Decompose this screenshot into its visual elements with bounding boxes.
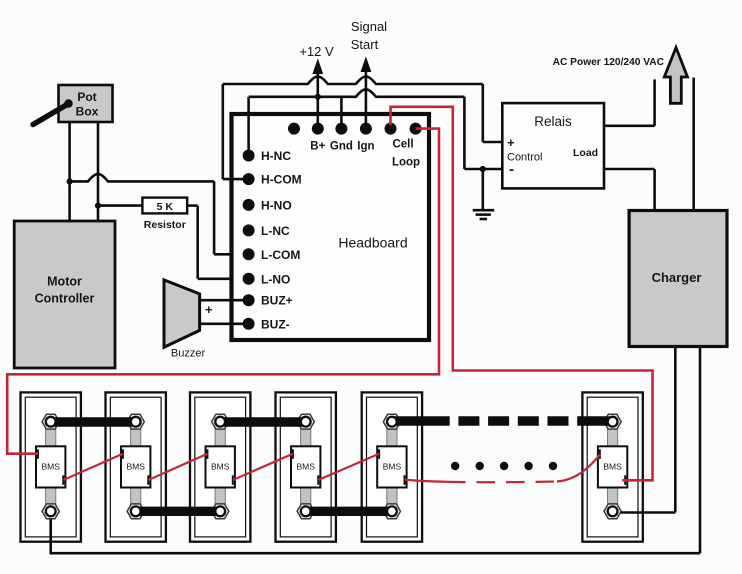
busbar cell3-cell4 top <box>220 417 306 426</box>
wire Gnd riser <box>340 97 343 129</box>
headboard U1 <box>232 114 430 340</box>
wire net H-NC/B+/Gnd to relay - (second horizontal) <box>249 89 503 169</box>
battery cell 4 terminal rings <box>301 417 311 516</box>
wire B+ to +12V arrow <box>312 59 323 129</box>
wire last cell bottom to charger <box>621 511 676 514</box>
BMS board 6 <box>598 446 627 487</box>
battery cell 5 terminal rings <box>387 417 397 516</box>
svg-text:Load: Load <box>573 147 598 159</box>
junction dot pot-left / L-COM net <box>67 178 73 184</box>
svg-text:L-NC: L-NC <box>261 224 290 238</box>
battery cell 5 <box>362 392 422 541</box>
wire net H-COM to relay + (top horizontal) <box>223 77 503 143</box>
svg-text:Loop: Loop <box>392 157 420 169</box>
battery cell 4 <box>276 392 336 541</box>
busbar cell5-cell6 top dashed <box>392 416 613 425</box>
ellipsis dots (more cells) <box>451 462 557 470</box>
pin Cell <box>385 123 414 151</box>
svg-text:Relais: Relais <box>534 114 572 129</box>
motor controller <box>14 221 115 368</box>
svg-text:Start: Start <box>351 37 379 52</box>
wire BUZ+ <box>200 299 249 302</box>
wire BUZ- <box>200 322 249 325</box>
battery cell 6 <box>582 392 642 541</box>
junction dot relay minus / ground <box>480 166 486 172</box>
svg-text:Pot: Pot <box>77 90 96 104</box>
wire L-COM net (pot wiper to L-COM) <box>70 174 249 254</box>
svg-text:BMS: BMS <box>296 462 315 472</box>
battery cell 6 terminal rings <box>608 417 618 516</box>
svg-text:BMS: BMS <box>126 462 145 472</box>
pin L-COM <box>243 248 301 262</box>
pin Loop <box>392 123 422 169</box>
AC power arrow <box>664 48 687 104</box>
wire H-NC riser <box>247 97 250 156</box>
wire charger positive via bottom bus <box>50 347 701 554</box>
wire ground drop <box>481 169 484 209</box>
svg-text:L-COM: L-COM <box>261 248 300 262</box>
svg-text:Buzzer: Buzzer <box>171 348 206 360</box>
wire relay load top to AC <box>604 79 655 125</box>
svg-text:BUZ+: BUZ+ <box>261 294 293 308</box>
wire AC line 2 to charger <box>692 78 695 211</box>
pin BUZ+ <box>243 294 293 308</box>
junction dot pot-right / resistor net <box>95 203 101 209</box>
wire red cell-loop from Cell pin to last BMS <box>391 107 653 481</box>
BMS board 3 <box>206 446 235 487</box>
wire pot box left lead <box>68 122 71 221</box>
pin L-NO <box>243 272 291 286</box>
pin Gnd <box>330 123 353 153</box>
svg-text:Gnd: Gnd <box>330 141 353 153</box>
wire resistor left lead <box>98 204 142 207</box>
wire red dashed BMS5 to BMS6 <box>405 455 601 483</box>
wire red BMS3 to BMS4 <box>233 454 293 480</box>
svg-text:Charger: Charger <box>652 270 702 285</box>
svg-text:Cell: Cell <box>392 139 413 151</box>
svg-text:+: + <box>507 135 515 150</box>
svg-text:BMS: BMS <box>211 462 230 472</box>
BMS board 4 <box>291 446 320 487</box>
wire relay load bottom to charger <box>604 169 655 211</box>
battery cell 2 terminal rings <box>131 417 141 516</box>
pin Ign <box>357 123 374 153</box>
svg-text:5 K: 5 K <box>157 201 174 213</box>
svg-text:Headboard: Headboard <box>338 235 407 251</box>
pin H-NO <box>243 198 292 212</box>
ground symbol <box>473 210 495 219</box>
svg-text:Motor: Motor <box>47 275 82 289</box>
svg-text:Box: Box <box>76 105 99 119</box>
label Signal Start <box>351 19 387 52</box>
wire red BMS2 to BMS3 <box>148 454 207 480</box>
battery cell 3 terminal rings <box>215 417 225 516</box>
junction dot B+ / second horizontal <box>315 94 321 100</box>
wire red BMS1 to BMS2 <box>63 454 123 480</box>
pin H-COM <box>243 173 302 187</box>
svg-text:Resistor: Resistor <box>144 219 186 231</box>
svg-text:-: - <box>509 161 514 178</box>
buzzer LS1 <box>164 280 213 360</box>
wire H-COM riser <box>223 84 249 179</box>
pin top unlabeled <box>288 123 300 135</box>
svg-text:Ign: Ign <box>357 141 374 153</box>
svg-text:AC Power 120/240 VAC: AC Power 120/240 VAC <box>553 57 665 68</box>
busbar cell4-cell5 bottom <box>306 507 392 516</box>
wire resistor right lead to L-NO <box>187 206 249 279</box>
charger <box>629 211 727 347</box>
svg-text:BMS: BMS <box>41 462 60 472</box>
svg-text:Signal: Signal <box>351 19 387 34</box>
svg-text:B+: B+ <box>310 141 325 153</box>
relay K1 <box>502 103 604 188</box>
pin BUZ- <box>243 317 290 331</box>
svg-text:H-NO: H-NO <box>261 198 292 212</box>
pin H-NC <box>243 149 292 163</box>
svg-text:L-NO: L-NO <box>261 272 290 286</box>
wire Ign to Signal Start arrow <box>361 57 372 129</box>
wire cell1 negative to bottom bus <box>49 519 52 553</box>
BMS board 2 <box>121 446 150 487</box>
wire red BMS4 to BMS5 <box>318 454 379 480</box>
busbar cell1-cell2 top <box>51 417 136 426</box>
svg-text:H-COM: H-COM <box>261 173 302 187</box>
wire red loop-return from Loop pin to first BMS <box>7 129 439 454</box>
pin L-NC <box>243 224 290 238</box>
battery cell 2 <box>106 392 166 541</box>
svg-text:+: + <box>205 302 213 317</box>
battery cell 3 <box>190 392 250 541</box>
wire charger negative to last cell <box>674 347 677 513</box>
svg-text:Controller: Controller <box>35 292 95 306</box>
pin B+ <box>310 123 325 153</box>
BMS board 1 <box>36 446 65 487</box>
wire pot box right lead <box>97 122 100 221</box>
battery cell 1 terminal rings <box>46 417 56 516</box>
pot box lever <box>33 99 73 124</box>
svg-text:BMS: BMS <box>383 462 402 472</box>
resistor R1 5K <box>142 198 187 231</box>
BMS board 5 <box>377 446 406 487</box>
svg-text:H-NC: H-NC <box>261 149 291 163</box>
pot box P1 <box>59 85 113 122</box>
svg-text:BUZ-: BUZ- <box>261 317 290 331</box>
busbar cell2-cell3 bottom <box>136 507 221 516</box>
svg-text:BMS: BMS <box>603 462 622 472</box>
svg-text:+12 V: +12 V <box>299 44 334 59</box>
battery cell 1 <box>21 392 81 541</box>
